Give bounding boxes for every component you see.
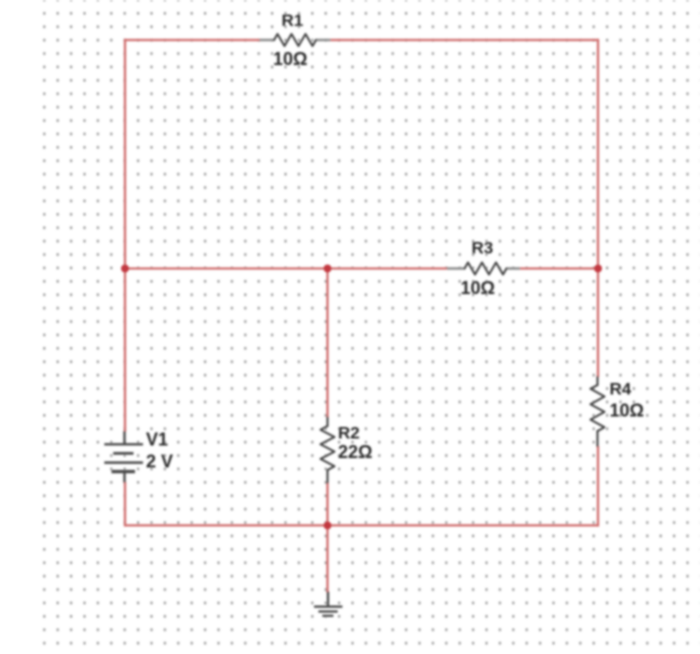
resistor R1 [261,34,330,46]
wire: ground stem [326,525,328,592]
svg-text:R4: R4 [610,380,632,399]
resistor R4 [591,377,605,446]
node D: junction bottom-middle [324,521,332,529]
svg-text:10Ω: 10Ω [273,49,307,69]
svg-text:10Ω: 10Ω [610,400,644,420]
svg-text:R3: R3 [472,239,494,258]
svg-text:R2: R2 [338,423,360,442]
resistor R2 [321,418,335,483]
wire: R2 branch upper [326,269,328,418]
wire: R2 branch lower [326,483,328,526]
wire: bottom horizontal [125,524,598,526]
battery V1 [104,431,143,483]
svg-text:V1: V1 [146,429,168,449]
wire: top horizontal left segment [125,39,261,41]
ground [314,592,342,616]
svg-text:2 V: 2 V [146,452,173,472]
wire: right vertical lower segment [597,446,599,527]
svg-text:R1: R1 [282,11,304,30]
node B: junction middle-middle [324,265,332,273]
wire: middle horizontal right segment [519,267,598,269]
resistor R3 [448,263,519,275]
node A: junction left-middle [121,265,129,273]
node C: junction right-middle [594,265,602,273]
wire: left vertical lower segment [124,483,126,527]
svg-text:22Ω: 22Ω [338,442,372,462]
wire: top horizontal right segment [330,39,599,41]
svg-text:10Ω: 10Ω [461,278,495,298]
wire: left vertical upper segment [124,39,126,432]
wire: right vertical upper segment [597,39,599,377]
wire: middle horizontal left segment [125,267,448,269]
